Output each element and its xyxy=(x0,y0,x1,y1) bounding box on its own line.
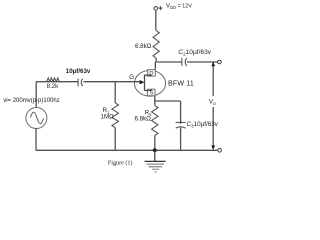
resistor R1 1M xyxy=(112,103,119,128)
capacitor C1 10uf xyxy=(77,79,79,87)
svg-text:G: G xyxy=(129,74,134,81)
svg-text:vi= 200mv(p-p)100hz: vi= 200mv(p-p)100hz xyxy=(3,98,60,104)
JFET drain lead xyxy=(145,74,152,77)
JFET channel bar xyxy=(144,75,146,91)
terminal output top xyxy=(218,60,222,64)
svg-text:6.8kΩ: 6.8kΩ xyxy=(135,115,152,122)
gate arrow xyxy=(140,80,145,84)
C3 wire top xyxy=(180,101,182,124)
junction dot ground xyxy=(153,148,157,152)
R1 wire bottom xyxy=(114,127,116,150)
svg-text:6.8kΩ: 6.8kΩ xyxy=(135,43,152,50)
ground lines xyxy=(145,160,166,162)
wire AC down xyxy=(35,128,37,150)
Rs wire bottom xyxy=(154,137,156,150)
C3 wire bottom xyxy=(180,127,182,150)
wire drain node down to D box xyxy=(154,62,156,70)
capacitor C2 xyxy=(181,58,183,66)
arrow down at bottom rail xyxy=(211,145,215,150)
resistor RD 6.8k xyxy=(153,31,159,59)
svg-text:BFW 11: BFW 11 xyxy=(168,80,194,87)
terminal VDD xyxy=(154,7,158,11)
resistor Rs 6.8k xyxy=(152,106,158,138)
wire RD to drain node xyxy=(155,58,157,62)
AC source circle xyxy=(26,108,47,129)
svg-text:8.2k: 8.2k xyxy=(47,83,59,90)
svg-text:1MΩ: 1MΩ xyxy=(101,113,115,120)
svg-text:D: D xyxy=(149,71,153,77)
capacitor C3 xyxy=(176,121,186,123)
plus sign xyxy=(158,6,162,10)
S box xyxy=(147,89,155,96)
wire drain rail to C2 xyxy=(156,61,182,63)
D box xyxy=(148,70,156,76)
JFET ellipse xyxy=(134,70,165,96)
JFET source lead xyxy=(145,89,152,90)
gate wire xyxy=(36,81,140,83)
wire VDD to RD xyxy=(155,11,157,31)
svg-text:10µf/63v: 10µf/63v xyxy=(66,68,91,75)
R1 wire top xyxy=(114,82,116,103)
svg-text:S: S xyxy=(150,91,154,97)
arrow up at output xyxy=(211,62,215,67)
resistor 8.2k xyxy=(47,78,60,82)
wire C2 to output node xyxy=(187,61,218,63)
S wire down xyxy=(154,96,156,106)
svg-text:VDD = 12V: VDD = 12V xyxy=(166,3,192,10)
ground stub xyxy=(154,150,156,161)
terminal output bottom xyxy=(218,149,222,153)
svg-text:Figure (1): Figure (1) xyxy=(108,160,133,167)
bottom rail xyxy=(36,149,218,151)
Vo measure line xyxy=(212,65,214,148)
branch to C3 xyxy=(155,100,181,102)
wire AC up xyxy=(35,82,37,108)
sine wave xyxy=(31,112,44,124)
